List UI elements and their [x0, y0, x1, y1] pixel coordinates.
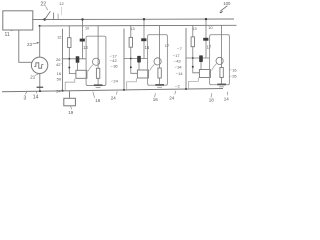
junction dash near rail	[37, 87, 44, 88]
module 2: transistor Q (dark)	[137, 56, 141, 63]
label 7	[177, 46, 182, 51]
wire box11 to switch	[32, 19, 45, 21]
module 3: IC box U	[199, 70, 210, 78]
svg-text:10: 10	[85, 27, 89, 31]
module 1: IC box U	[76, 70, 87, 78]
module 2: lamp tail curl	[150, 64, 155, 71]
svg-text:50: 50	[57, 77, 62, 82]
module 1: wire to ground	[97, 78, 99, 84]
module 2: junction dot	[130, 58, 132, 60]
module 3: resistor branch wire	[192, 25, 194, 37]
module 2: main vertical wire	[123, 29, 125, 90]
module 1: node dot on rail	[62, 90, 64, 92]
module 3: horizontal wire	[186, 57, 210, 59]
module 2: dark bar component	[141, 38, 146, 41]
svg-text:14: 14	[224, 96, 230, 101]
svg-text:21: 21	[30, 75, 36, 80]
svg-text:11: 11	[5, 32, 10, 38]
module 3: wire Q to IC	[200, 62, 202, 70]
label 100 with arrow	[219, 1, 231, 14]
module 1: dark bar component	[80, 39, 85, 42]
svg-text:36: 36	[113, 64, 118, 69]
svg-text:24: 24	[169, 95, 175, 100]
label 21	[30, 74, 38, 80]
module 2: IC box U	[137, 70, 148, 78]
svg-text:18: 18	[209, 98, 215, 103]
module 1: wire IC to rail	[65, 79, 75, 91]
svg-text:100: 100	[223, 1, 231, 6]
svg-text:13: 13	[192, 27, 196, 31]
module 2: resistor R	[129, 37, 132, 47]
module 1: lamp tail curl	[88, 65, 93, 72]
label 17	[173, 53, 181, 58]
label 24	[111, 78, 119, 83]
svg-text:16: 16	[153, 97, 159, 102]
svg-text:12: 12	[59, 1, 64, 6]
module 3: lamp circle	[216, 57, 223, 64]
label rail 14	[33, 92, 39, 101]
label 23 with arrow	[27, 42, 39, 47]
AC source circle 21	[31, 57, 47, 73]
label 16	[229, 67, 237, 72]
module 1: ground symbol	[94, 85, 103, 87]
module 1: lamp/load element	[96, 68, 99, 78]
svg-text:16: 16	[95, 98, 101, 103]
module 3: lamp tail curl	[212, 64, 217, 71]
label 26	[229, 74, 237, 79]
label cap 24a	[111, 91, 117, 101]
svg-text:10: 10	[208, 25, 213, 30]
module 1: label 13	[83, 45, 88, 50]
module 2: gate branch from bus1	[143, 19, 145, 58]
label 34	[175, 64, 183, 69]
svg-text:13: 13	[130, 27, 134, 31]
node dot rail/source	[39, 90, 41, 92]
switch 22 pivot dot	[43, 18, 46, 21]
label 17	[110, 54, 118, 59]
module 1: lamp branch wire from bus2	[97, 26, 99, 69]
module 2: wire to ground	[159, 78, 161, 84]
module 3: dark bar component	[203, 38, 208, 41]
svg-text:12: 12	[57, 35, 62, 40]
label 11	[5, 30, 14, 38]
module 1: horizontal wire	[63, 58, 87, 60]
switch contact tick 2	[57, 14, 59, 20]
module 3: wire to ground	[221, 78, 223, 84]
module 2: junction dot 2	[130, 66, 132, 68]
module 1: resistor R	[68, 38, 71, 48]
module 1: wire resistor to IC	[69, 48, 76, 74]
label 19	[68, 106, 74, 115]
module 2: label 15	[145, 45, 150, 50]
label cap 24b	[169, 91, 175, 101]
module 3: enclosure box	[210, 35, 230, 85]
module 3: junction dot	[192, 57, 194, 59]
ground return rail	[2, 89, 223, 92]
svg-text:3: 3	[24, 95, 27, 101]
module 2: wire Q to IC	[138, 63, 140, 71]
module 2: ground symbol	[155, 85, 164, 87]
module 3: wire IC to rail	[189, 78, 199, 89]
module 3: transistor Q (dark)	[199, 55, 203, 62]
label 36	[111, 64, 119, 69]
wire box11 bottom to source	[19, 30, 33, 62]
svg-text:17: 17	[207, 44, 212, 49]
svg-text:17: 17	[175, 53, 180, 58]
module 3: node dot on bus1	[205, 18, 207, 20]
module 1: transistor Q (dark)	[76, 56, 80, 63]
svg-text:42: 42	[112, 58, 117, 63]
label 14	[176, 71, 184, 76]
label 50	[57, 77, 64, 82]
module 2: lamp circle	[154, 58, 161, 65]
label 24	[56, 88, 63, 93]
svg-text:34: 34	[177, 64, 182, 69]
svg-text:15: 15	[145, 45, 150, 50]
module 3: wire resistor to IC	[193, 47, 200, 73]
svg-text:16: 16	[232, 67, 237, 72]
module 2: lamp branch wire from bus2	[159, 26, 161, 69]
module 3: gate branch from bus1	[205, 19, 207, 58]
module 3: lamp/load element	[220, 68, 223, 78]
module 2: wire IC to rail	[127, 78, 137, 90]
label node 16b	[153, 93, 159, 102]
wire source top to bus2	[39, 26, 41, 58]
svg-text:19: 19	[68, 110, 74, 115]
svg-text:14: 14	[33, 94, 39, 100]
label node 3	[24, 92, 27, 102]
module 2: horizontal wire	[124, 58, 148, 60]
label 2	[175, 84, 180, 89]
module 1: resistor branch wire	[68, 26, 70, 38]
module 3: ground symbol	[217, 84, 226, 86]
svg-text:17: 17	[165, 43, 170, 48]
svg-text:24: 24	[111, 96, 117, 101]
label node 16a	[93, 92, 101, 104]
module 2: wire resistor to IC	[131, 47, 138, 73]
svg-text:14: 14	[178, 71, 183, 76]
label 16	[57, 71, 64, 76]
label rail 14b	[224, 92, 230, 102]
module 1: lamp circle	[93, 58, 100, 65]
svg-text:42: 42	[56, 62, 61, 67]
module 2: enclosure box	[148, 35, 168, 85]
svg-text:13: 13	[83, 45, 88, 50]
label 26	[56, 57, 63, 62]
module 1: junction dot	[68, 58, 70, 60]
module 2: node dot on bus1	[143, 18, 145, 20]
component box 24 (bottom)	[69, 91, 71, 99]
node dot at bus2	[39, 25, 41, 27]
module 1: junction dot 2	[68, 67, 70, 69]
label 42	[56, 62, 63, 67]
module 3: label 17	[207, 44, 212, 49]
module 2: lamp/load element	[158, 68, 161, 78]
bus line 2 (lower supply rail)	[38, 24, 236, 27]
module 1: wire Q to IC	[77, 63, 79, 71]
label node 18	[209, 93, 215, 102]
module 1: enclosure box	[86, 36, 106, 85]
waveform glyph	[34, 63, 43, 68]
svg-text:26: 26	[232, 74, 237, 79]
label 22	[41, 2, 48, 11]
label 12 on bus1	[59, 1, 64, 15]
switch contact tick 1	[53, 13, 55, 19]
module 3: resistor R	[191, 37, 194, 47]
label 43	[174, 59, 182, 64]
wire source bottom to ground rail	[39, 73, 41, 91]
module 3: node dot on rail	[185, 88, 187, 90]
svg-text:16: 16	[57, 71, 62, 76]
label 42	[110, 58, 118, 63]
module 3: main vertical wire	[185, 28, 187, 89]
module 2: node dot on rail	[123, 89, 125, 91]
switch 22 blade	[45, 11, 51, 19]
module 1: node dot on bus1	[81, 18, 83, 20]
module 3: junction dot 2	[192, 66, 194, 68]
module 3: lamp branch wire from bus2	[221, 25, 223, 67]
block 11 (power supply box)	[3, 11, 33, 30]
svg-text:24: 24	[56, 88, 61, 93]
module 2: resistor branch wire	[130, 26, 132, 38]
module 1: gate branch from bus1	[82, 19, 84, 58]
svg-text:23: 23	[27, 42, 33, 47]
svg-text:24: 24	[113, 78, 118, 83]
bus line 1 (upper supply rail)	[45, 18, 234, 21]
module 1: main vertical wire	[62, 29, 64, 91]
svg-text:43: 43	[176, 59, 181, 64]
